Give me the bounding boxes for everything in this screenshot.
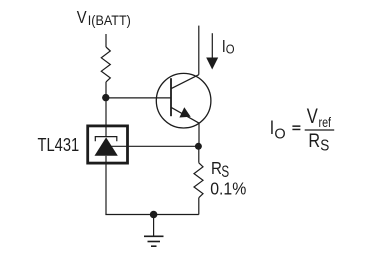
resistor R1 (bias resistor): [101, 47, 110, 82]
I_O label: [222, 37, 235, 57]
svg-text:0.1%: 0.1%: [210, 179, 246, 199]
wire from VIN to resistor: [105, 34, 107, 47]
node VIN label V_I(BATT): [77, 8, 131, 28]
TL431 anode triangle: [95, 137, 118, 155]
wire node A down to TL431 cathode: [105, 98, 107, 125]
TL431 internal cathode wire: [105, 127, 107, 137]
svg-text:V: V: [77, 8, 87, 28]
emitter lead wire to node B: [198, 123, 200, 146]
resistor R_S: [194, 163, 203, 198]
wire resistor to node A: [105, 82, 107, 98]
transistor Q1 collector diagonal: [171, 75, 199, 89]
transistor Q1 emitter diagonal: [171, 107, 199, 123]
TL431 internal anode wire: [105, 156, 107, 163]
collector lead wire up: [198, 26, 200, 75]
wire node B to R_S: [198, 146, 200, 163]
svg-text:I(BATT): I(BATT): [88, 12, 131, 28]
output current arrow I_O: [211, 33, 213, 58]
transistor Q1 body circle: [156, 73, 211, 128]
bottom rail wire: [105, 214, 198, 216]
node A junction dot: [102, 94, 109, 101]
wire R_S to bottom rail: [198, 198, 200, 215]
TL431 cathode bar with ticks: [95, 137, 117, 142]
svg-text:R: R: [211, 158, 222, 179]
svg-text:S: S: [320, 138, 329, 155]
wire TL431 anode to bottom rail: [105, 163, 107, 215]
wire node A to transistor base: [106, 97, 172, 99]
equation fraction bar: [305, 129, 335, 131]
svg-text:R: R: [308, 130, 320, 152]
ground node junction dot: [150, 211, 158, 219]
transistor Q1 emitter arrow: [179, 107, 190, 117]
node B junction dot: [195, 143, 202, 150]
svg-text:ref: ref: [319, 115, 332, 131]
R_S label: [210, 158, 246, 199]
ground symbol: [153, 215, 155, 236]
equation I_O = V_ref / R_S: [270, 105, 332, 155]
transistor Q1 base bar: [170, 78, 172, 116]
svg-text:O: O: [226, 42, 235, 57]
wire TL431 ref to node B: [112, 145, 199, 147]
TL431 U1 box: [88, 126, 128, 163]
svg-text:O: O: [274, 126, 285, 142]
svg-text:V: V: [307, 105, 318, 128]
svg-text:TL431: TL431: [38, 134, 80, 155]
